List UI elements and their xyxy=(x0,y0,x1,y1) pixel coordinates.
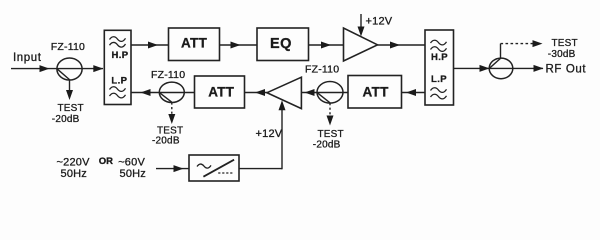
svg-text:-20dB: -20dB xyxy=(313,140,341,151)
svg-text:FZ-110: FZ-110 xyxy=(151,69,185,81)
svg-text:ATT: ATT xyxy=(208,85,235,100)
svg-text:L.P: L.P xyxy=(111,76,127,87)
svg-text:L.P: L.P xyxy=(431,74,447,85)
svg-text:ATT: ATT xyxy=(363,84,390,99)
svg-text:OR: OR xyxy=(99,156,113,167)
svg-text:~60V: ~60V xyxy=(118,156,145,168)
svg-text:FZ-110: FZ-110 xyxy=(51,41,85,53)
svg-text:H.P: H.P xyxy=(431,52,448,63)
svg-text:+12V: +12V xyxy=(256,128,283,140)
svg-text:TEST: TEST xyxy=(318,129,344,140)
svg-text:50Hz: 50Hz xyxy=(61,168,87,180)
svg-text:TEST: TEST xyxy=(58,103,84,114)
svg-text:Input: Input xyxy=(13,52,42,64)
svg-text:-30dB: -30dB xyxy=(548,49,576,60)
svg-text:-20dB: -20dB xyxy=(152,136,180,147)
svg-text:EQ: EQ xyxy=(270,36,292,52)
svg-text:TEST: TEST xyxy=(552,38,578,49)
svg-text:H.P: H.P xyxy=(112,50,129,61)
svg-text:ATT: ATT xyxy=(181,36,208,51)
svg-text:-20dB: -20dB xyxy=(52,114,80,125)
svg-text:FZ-110: FZ-110 xyxy=(305,63,339,75)
svg-text:RF Out: RF Out xyxy=(546,64,587,76)
svg-text:+12V: +12V xyxy=(366,16,393,28)
svg-text:50Hz: 50Hz xyxy=(120,168,146,180)
svg-text:~220V: ~220V xyxy=(57,156,91,168)
